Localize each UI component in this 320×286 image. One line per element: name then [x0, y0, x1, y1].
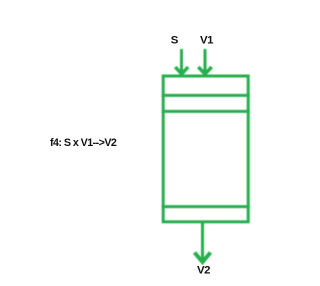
svg-text:V2: V2 [197, 265, 210, 277]
wire: inner horizontal line 1 [162, 94, 250, 97]
wire: inner horizontal line 3 (bottom band) [162, 205, 250, 208]
wire: input arrow S shaft [180, 49, 183, 73]
svg-text:f4: S x V1-->V2: f4: S x V1-->V2 [50, 137, 117, 149]
node: output arrow V2 head [195, 253, 211, 263]
wire: inner horizontal line 2 [162, 110, 250, 113]
wire: input arrow V1 shaft [204, 49, 207, 73]
node: input arrow S head [175, 67, 188, 74]
svg-text:V1: V1 [200, 35, 214, 47]
svg-text:S: S [171, 35, 179, 47]
node: input arrow V1 head [198, 67, 211, 74]
wire: output arrow V2 shaft [201, 222, 204, 259]
node: function block outer rectangle [163, 76, 248, 222]
